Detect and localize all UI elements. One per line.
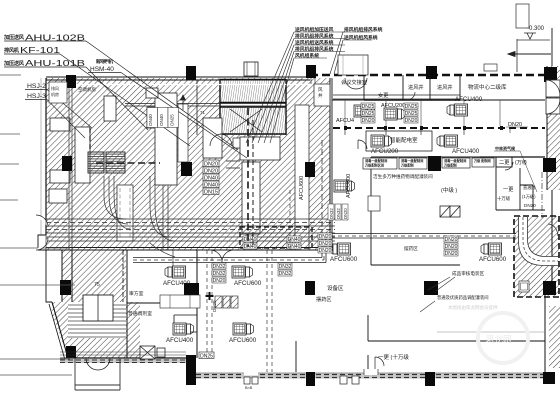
- svg-text:万级配制区间: 万级配制区间: [364, 163, 384, 168]
- svg-text:DN32: DN32: [213, 264, 226, 270]
- svg-text:(万级: (万级: [515, 158, 527, 166]
- svg-text:AFCU200: AFCU200: [381, 103, 405, 109]
- svg-text:DN20: DN20: [204, 168, 218, 174]
- svg-text:AFCU600: AFCU600: [330, 256, 358, 263]
- svg-text:DN32: DN32: [336, 208, 341, 219]
- svg-text:消毒一级配制间: 消毒一级配制间: [401, 158, 423, 163]
- svg-text:普通调剂室: 普通调剂室: [128, 310, 152, 317]
- svg-text:75: 75: [94, 282, 100, 288]
- svg-text:DN25: DN25: [405, 104, 418, 110]
- svg-text:DN32: DN32: [213, 271, 226, 277]
- svg-text:排风: 排风: [51, 85, 59, 91]
- svg-text:DN15: DN15: [204, 189, 218, 195]
- svg-text:AFCU4: AFCU4: [336, 118, 354, 124]
- svg-text:消毒一级配制间: 消毒一级配制间: [365, 158, 387, 163]
- svg-text:AFCU400: AFCU400: [452, 148, 480, 155]
- svg-text:筑龙网: 筑龙网: [486, 334, 512, 344]
- svg-text:万级配制: 万级配制: [400, 163, 415, 168]
- svg-text:AFCU600: AFCU600: [229, 337, 257, 344]
- svg-text:进风井: 进风井: [408, 83, 424, 91]
- svg-text:AFCU400: AFCU400: [455, 96, 483, 103]
- svg-text:DN25: DN25: [362, 104, 375, 110]
- svg-text:摆药区: 摆药区: [316, 295, 332, 303]
- svg-text:进风井: 进风井: [437, 83, 453, 91]
- svg-text:成品审核电装区: 成品审核电装区: [452, 270, 485, 277]
- svg-text:一更 (十万级: 一更 (十万级: [378, 353, 409, 361]
- svg-text:HSJ-3: HSJ-3: [27, 93, 47, 100]
- svg-text:DN40: DN40: [159, 114, 164, 126]
- svg-text:新风换气机: 新风换气机: [96, 58, 114, 65]
- svg-text:DN20: DN20: [445, 251, 458, 257]
- svg-text:DN20: DN20: [445, 244, 458, 250]
- svg-text:AFCU200: AFCU200: [371, 148, 399, 155]
- svg-text:女更: 女更: [378, 91, 389, 99]
- svg-text:DN25: DN25: [362, 111, 375, 117]
- svg-text:DN40: DN40: [148, 114, 153, 126]
- svg-text:消毒一级配制间: 消毒一级配制间: [444, 158, 466, 163]
- svg-text:-0.300: -0.300: [527, 26, 545, 32]
- svg-text:B≈B: B≈B: [245, 386, 253, 390]
- svg-text:DN25: DN25: [170, 114, 175, 126]
- svg-text:会议交接室: 会议交接室: [341, 78, 367, 86]
- svg-text:HSM-40: HSM-40: [90, 66, 114, 73]
- svg-text:DN25: DN25: [405, 111, 418, 117]
- svg-text:空调机房: 空调机房: [78, 86, 96, 93]
- svg-text:DN20: DN20: [362, 118, 375, 124]
- svg-text:(1万级): (1万级): [522, 193, 536, 200]
- svg-text:洁生多万种维药物调配灌装间: 洁生多万种维药物调配灌装间: [373, 173, 433, 180]
- svg-text:机房: 机房: [51, 91, 59, 97]
- svg-text:DN32: DN32: [329, 208, 334, 219]
- svg-text:AFCU400: AFCU400: [166, 337, 194, 344]
- svg-text:万级 配制间: 万级 配制间: [473, 158, 491, 163]
- svg-text:智能配电室: 智能配电室: [390, 136, 418, 144]
- svg-text:排风机: 排风机: [4, 46, 20, 54]
- svg-text:直液除: 直液除: [523, 184, 536, 191]
- svg-text:DN32: DN32: [279, 264, 292, 270]
- svg-text:摆药区: 摆药区: [404, 245, 418, 252]
- svg-text:AFCU600: AFCU600: [479, 256, 507, 263]
- svg-text:普通及优质药品调配灌装间: 普通及优质药品调配灌装间: [437, 294, 489, 301]
- svg-text:DN40: DN40: [204, 175, 218, 181]
- svg-text:71: 71: [200, 110, 206, 115]
- svg-text:AFCU400: AFCU400: [163, 280, 191, 287]
- svg-text:(中级 ): (中级 ): [441, 186, 457, 194]
- svg-text:一更: 一更: [503, 186, 514, 193]
- svg-text:DN20: DN20: [319, 241, 332, 247]
- svg-text:DN20: DN20: [405, 118, 418, 124]
- svg-text:加压送风: 加压送风: [3, 59, 25, 67]
- svg-text:DN40: DN40: [204, 182, 218, 188]
- svg-text:DN32: DN32: [279, 271, 292, 277]
- svg-text:井: 井: [318, 92, 323, 99]
- svg-text:审方室: 审方室: [129, 290, 144, 297]
- svg-text:DN40: DN40: [244, 244, 257, 250]
- svg-text:HSJ-2: HSJ-2: [27, 83, 47, 90]
- svg-text:设备区: 设备区: [327, 284, 344, 292]
- svg-text:加压送风: 加压送风: [3, 33, 25, 41]
- svg-text:中林资气候: 中林资气候: [495, 145, 516, 151]
- svg-text:AFCU600: AFCU600: [299, 176, 305, 200]
- svg-text:AFCU600: AFCU600: [234, 280, 262, 287]
- svg-text:DN40: DN40: [244, 237, 257, 243]
- svg-text:DN20: DN20: [524, 203, 536, 208]
- svg-text:DN20: DN20: [445, 237, 458, 243]
- svg-text:DN20: DN20: [319, 234, 332, 240]
- svg-text:万级配制: 万级配制: [443, 163, 458, 168]
- svg-text:DN20: DN20: [319, 248, 332, 254]
- svg-text:DN20: DN20: [204, 161, 218, 167]
- svg-text:DN40: DN40: [288, 237, 301, 243]
- svg-text:物流中心二级库: 物流中心二级库: [468, 83, 507, 91]
- svg-text:AFCU600: AFCU600: [346, 174, 352, 198]
- svg-text:本图纸由筑龙网会员提供: 本图纸由筑龙网会员提供: [448, 304, 498, 311]
- svg-text:DN20: DN20: [213, 278, 226, 284]
- svg-text:十万级: 十万级: [497, 195, 511, 202]
- svg-text:DN25: DN25: [200, 354, 213, 360]
- svg-text:DN20: DN20: [343, 208, 348, 219]
- svg-text:DN40: DN40: [288, 244, 301, 250]
- svg-text:二更: 二更: [499, 159, 510, 166]
